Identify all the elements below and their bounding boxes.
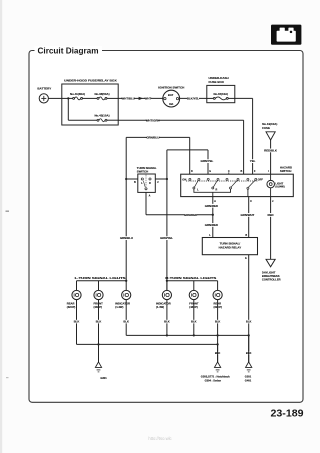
svg-text:GRN/BLU: GRN/BLU [120,236,133,240]
svg-text:A: A [214,200,216,203]
svg-text:G401: G401 [245,378,252,382]
svg-text:No.38(50A): No.38(50A) [94,92,109,96]
svg-text:YEL: YEL [250,159,256,163]
svg-text:BLK: BLK [123,320,129,324]
svg-text:SWITCH: SWITCH [280,169,291,173]
svg-text:BRIGHTNESS: BRIGHTNESS [262,274,280,278]
svg-text:IG1: IG1 [169,102,174,106]
svg-text:G304 : Sedan: G304 : Sedan [205,378,222,382]
svg-text:UNDER-HOOD FUSE/RELAY BOX: UNDER-HOOD FUSE/RELAY BOX [64,78,117,82]
svg-text:HAZARD RELAY: HAZARD RELAY [219,245,242,249]
svg-text:CONTROLLER: CONTROLLER [262,277,281,281]
svg-text:OFF: OFF [258,177,264,181]
svg-text:WHT/BLU: WHT/BLU [122,97,135,101]
svg-text:SWITCH: SWITCH [137,170,148,174]
svg-text:BATTERY: BATTERY [37,87,51,91]
svg-text:23-189: 23-189 [271,408,304,420]
svg-text:No.15(10A): No.15(10A) [213,92,228,96]
svg-text:B: B [245,234,247,237]
svg-text:LIGHT: LIGHT [275,181,283,185]
svg-text:G303,G771 : Hatchback: G303,G771 : Hatchback [201,375,230,379]
svg-text:No.43(10A): No.43(10A) [94,114,109,118]
svg-text:BAT: BAT [168,93,174,97]
svg-text:ON: ON [182,177,186,181]
svg-text:INDICATOR: INDICATOR [156,301,171,305]
svg-text:D: D [191,170,193,173]
svg-text:B: B [241,170,243,173]
svg-text:(0.84W): (0.84W) [275,185,284,189]
svg-text:No.41(80A): No.41(80A) [70,92,85,96]
svg-text:DAYLIGHT: DAYLIGHT [262,270,276,274]
svg-text:BLK/YEL: BLK/YEL [187,97,200,101]
svg-text:(1.4W): (1.4W) [115,305,123,309]
svg-text:WHT: WHT [145,97,152,101]
svg-text:BLK: BLK [215,320,221,324]
svg-text:RED/BLK: RED/BLK [264,149,278,153]
svg-text:L.TURN SIGNAL LIGHTS: L.TURN SIGNAL LIGHTS [75,276,126,280]
svg-text:GRN/WHT: GRN/WHT [240,213,254,217]
svg-text:GRN/YEL: GRN/YEL [200,159,213,163]
svg-text:FUSE BOX: FUSE BOX [209,80,224,84]
svg-text:BLK: BLK [191,320,197,324]
svg-text:BLK: BLK [74,320,80,324]
svg-text:WHT/GRN: WHT/GRN [146,118,160,122]
svg-text:(1.4W): (1.4W) [156,305,164,309]
svg-text:IGNITION SWITCH: IGNITION SWITCH [158,86,184,90]
svg-text:htto://tso.wlc: htto://tso.wlc [148,436,171,441]
svg-text:INDICATOR: INDICATOR [115,301,130,305]
svg-text:(43CP): (43CP) [94,305,103,309]
svg-text:Circuit Diagram: Circuit Diagram [38,46,99,55]
svg-text:R: R [216,189,218,192]
svg-text:RED: RED [268,213,274,217]
svg-text:(32CP): (32CP) [67,305,76,309]
svg-text:GRN/YEL: GRN/YEL [160,236,173,240]
svg-text:BLK: BLK [246,320,252,324]
svg-text:FUSE: FUSE [262,126,270,130]
svg-text:G201: G201 [245,375,252,379]
svg-text:R: R [149,182,151,185]
svg-text:R.TURN SIGNAL LIGHTS: R.TURN SIGNAL LIGHTS [165,276,216,280]
svg-text:B: B [134,181,136,184]
svg-text:GRN/RED: GRN/RED [184,213,197,217]
svg-text:GRN/RED: GRN/RED [205,223,218,227]
svg-text:GRN/BLU: GRN/BLU [146,136,159,140]
svg-text:BLK: BLK [96,320,102,324]
svg-text:GRN/RED: GRN/RED [205,204,218,208]
svg-text:BLK: BLK [164,320,170,324]
svg-text:C: C [250,200,252,203]
svg-text:REAR: REAR [67,301,75,305]
svg-text:A: A [149,195,151,198]
svg-text:G301: G301 [100,376,107,380]
